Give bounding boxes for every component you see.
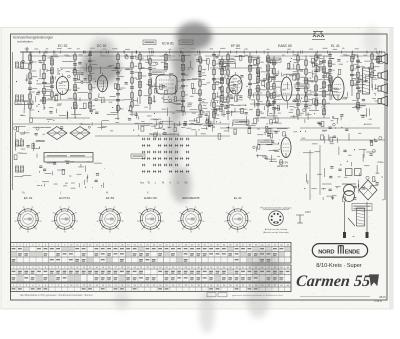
svg-text:EF 89: EF 89: [231, 44, 240, 48]
svg-text:Alle Widerstände in Ohm gemess: Alle Widerstände in Ohm gemessen · Rundf…: [20, 294, 93, 297]
svg-text:220V: 220V: [305, 211, 311, 214]
svg-text:UK: UK: [184, 183, 188, 185]
svg-text:TPW-B: TPW-B: [374, 300, 382, 303]
svg-text:8/10-Kreis · Super: 8/10-Kreis · Super: [316, 263, 362, 269]
svg-text:EL 41: EL 41: [234, 196, 242, 200]
svg-text:ENDE: ENDE: [345, 250, 360, 256]
svg-text:Carmen 55: Carmen 55: [295, 273, 371, 290]
svg-text:EM 34: EM 34: [279, 161, 288, 165]
svg-text:4810: 4810: [379, 295, 386, 299]
svg-text:EM34/EM35: EM34/EM35: [182, 196, 199, 200]
svg-text:od.EM 35: od.EM 35: [277, 164, 289, 168]
svg-text:EL 41: EL 41: [331, 44, 340, 48]
svg-text:EC 92: EC 92: [97, 44, 107, 48]
svg-text:Tasten in Ruhestellung: Tasten in Ruhestellung: [149, 132, 180, 136]
svg-text:~: ~: [352, 234, 355, 239]
svg-text:M: M: [106, 192, 108, 195]
svg-text:(Ansicht von der Unterseite): (Ansicht von der Unterseite): [263, 231, 289, 234]
svg-text:EF 89: EF 89: [106, 196, 115, 200]
svg-text:gemessen mit Röhrenvoltmeter i: gemessen mit Röhrenvoltmeter im Meßberei…: [232, 294, 283, 297]
svg-text:NORD: NORD: [318, 250, 334, 256]
svg-text:Ansicht von der Lötseite: Ansicht von der Lötseite: [265, 228, 288, 231]
svg-text:EABC 80: EABC 80: [278, 44, 292, 48]
svg-text:vorbehalten: vorbehalten: [17, 39, 33, 43]
svg-text:EABC 80: EABC 80: [144, 196, 157, 200]
svg-text:EC 92: EC 92: [58, 44, 68, 48]
svg-text:EC 92: EC 92: [24, 196, 33, 200]
svg-text:ECH 81: ECH 81: [59, 196, 70, 200]
svg-text:Phosphorbronzefedern gebogen: Phosphorbronzefedern gebogen: [260, 207, 292, 210]
svg-text:ECH 81: ECH 81: [162, 42, 174, 46]
svg-text:M: M: [162, 183, 164, 185]
